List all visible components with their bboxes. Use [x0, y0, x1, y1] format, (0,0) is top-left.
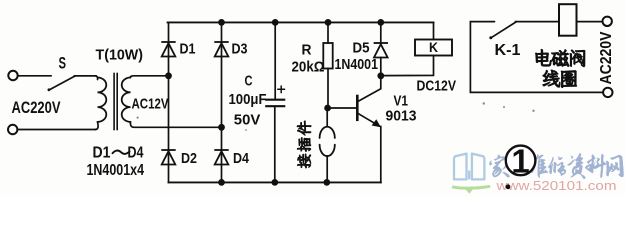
- wire: solenoid box to right terminal: [577, 21, 603, 23]
- wire: D5 anode to collector node: [380, 58, 382, 76]
- svg-text:AC220V: AC220V: [12, 99, 61, 117]
- node: AC input left (junction dot): [165, 72, 172, 79]
- svg-text:C: C: [245, 74, 253, 90]
- terminal: AC220V right top: [603, 17, 612, 26]
- svg-text:D3: D3: [232, 42, 248, 58]
- transformer core: [113, 74, 115, 130]
- junction dot bottom rail / D4: [218, 179, 225, 186]
- wire: top rail down to relay K: [433, 22, 435, 39]
- wire: top terminal to switch S: [18, 75, 51, 77]
- connector lower half (plug): [320, 145, 335, 156]
- svg-text:1: 1: [511, 142, 529, 179]
- switch K-1 blade: [492, 22, 517, 38]
- label: solenoid valve coil 电磁阀 线圈: [536, 49, 552, 66]
- svg-text:D2: D2: [181, 151, 197, 167]
- svg-text:D1: D1: [93, 145, 111, 162]
- svg-text:20kΩ: 20kΩ: [292, 60, 325, 76]
- scan speckles: [137, 102, 535, 131]
- wire: connector to bottom rail: [326, 156, 328, 182]
- junction dot bottom rail / connector: [323, 179, 330, 186]
- wire: base: [328, 107, 358, 109]
- wire: bridge right branch: [221, 22, 223, 182]
- wire: K-1 to solenoid coil box: [516, 21, 560, 23]
- wire: top rail to resistor R: [327, 22, 329, 43]
- svg-text:1N4001: 1N4001: [335, 57, 379, 73]
- transistor V1 base bar: [356, 96, 359, 120]
- wire: bottom terminal to transformer primary: [18, 129, 96, 131]
- junction dot top rail / D3: [218, 19, 225, 26]
- V1 collector lead: [358, 77, 381, 102]
- svg-text:T(10W): T(10W): [96, 47, 144, 64]
- svg-text:K-1: K-1: [495, 42, 521, 59]
- transformer T(10W) primary winding: [75, 76, 98, 80]
- label connector (rotated CJK): 接插件: [297, 121, 311, 168]
- svg-text:9013: 9013: [386, 109, 417, 125]
- diode D4: [214, 150, 228, 165]
- transformer T(10W) secondary winding: [122, 78, 131, 122]
- svg-text:D5: D5: [353, 41, 370, 57]
- svg-text:K: K: [429, 40, 438, 55]
- junction dot top rail / C: [272, 19, 279, 26]
- svg-text:R: R: [302, 43, 312, 59]
- junction dot top rail / R: [325, 19, 332, 26]
- svg-text:V1: V1: [394, 94, 409, 110]
- relay coil K: [415, 40, 452, 56]
- svg-text:D4: D4: [128, 145, 144, 162]
- svg-text:AC220V: AC220V: [598, 31, 615, 85]
- diode D1: [161, 42, 175, 57]
- svg-text:D4: D4: [233, 151, 249, 167]
- watermark: 家电维修资料网 script text: [489, 153, 623, 179]
- node: AC input right (junction dot): [218, 124, 225, 131]
- wire: relay K to collector node: [381, 56, 434, 76]
- terminal: AC220V input bottom: [8, 125, 17, 134]
- connector upper half (socket): [320, 127, 335, 138]
- node: collector junction dot: [377, 72, 384, 79]
- svg-text:www.520101.com: www.520101.com: [495, 179, 616, 193]
- wire: top rail (+): [168, 21, 434, 23]
- wire: resistor R to base node: [327, 69, 329, 109]
- svg-text:50V: 50V: [234, 113, 261, 129]
- terminal: AC220V input top: [8, 71, 17, 80]
- tilde of D1~D4: [113, 151, 130, 154]
- wire: base node down to connector: [326, 108, 328, 127]
- svg-text:100μF: 100μF: [229, 92, 267, 108]
- svg-text:AC12V: AC12V: [132, 96, 169, 113]
- junction dot top rail / D5: [377, 19, 384, 26]
- switch S blade: [49, 76, 75, 90]
- node: base junction dot: [324, 105, 331, 112]
- svg-text:S: S: [59, 54, 67, 73]
- label AC220V (right, rotated): [598, 31, 615, 85]
- diode D5: [374, 43, 388, 58]
- resistor R 20k: [323, 43, 332, 69]
- terminal: AC220V right bottom: [603, 88, 612, 97]
- svg-text:D1: D1: [180, 42, 196, 58]
- svg-text:1N4001x4: 1N4001x4: [87, 162, 145, 179]
- wire: capacitor C to bottom rail: [274, 106, 276, 182]
- watermark: open book icon: [454, 154, 484, 180]
- solenoid valve coil box: [559, 4, 577, 36]
- wire: bottom rail (-): [169, 181, 381, 183]
- wire: emitter to bottom rail: [380, 127, 382, 183]
- wire: top rail to capacitor C: [274, 22, 276, 99]
- V1 emitter lead with arrow: [358, 113, 380, 126]
- diode D2: [161, 150, 175, 165]
- wire: bridge left branch: [168, 22, 170, 182]
- capacitor polarity plus: [278, 86, 285, 93]
- svg-text:DC12V: DC12V: [417, 79, 457, 95]
- wire: top rail to D5 cathode: [380, 22, 382, 43]
- wire: switch S to transformer primary: [75, 75, 97, 77]
- diode D3: [214, 42, 228, 57]
- wire: K-1 circuit left/bottom: [470, 22, 602, 93]
- figure number circle 1: [506, 146, 536, 176]
- capacitor C 100uF 50V: [266, 99, 284, 101]
- junction dot bottom rail / C: [271, 179, 278, 186]
